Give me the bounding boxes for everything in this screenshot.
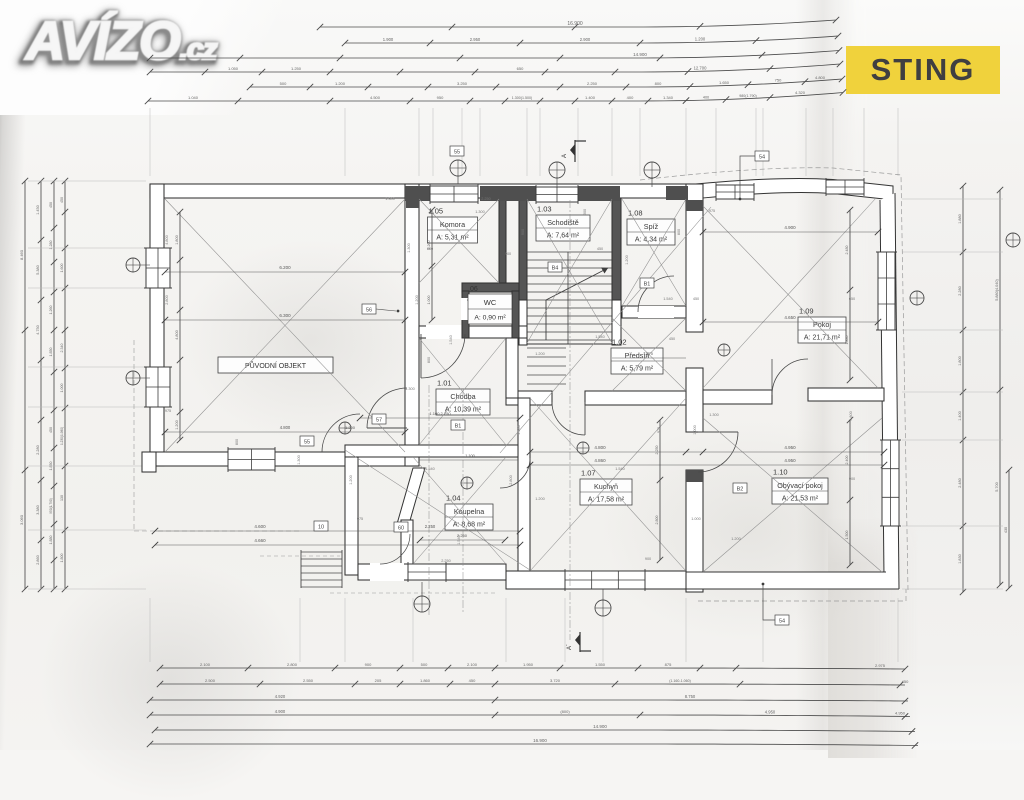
svg-text:1.540: 1.540 [663, 297, 673, 301]
chodba right wall [506, 338, 518, 398]
svg-text:4.950: 4.950 [895, 711, 906, 716]
svg-text:980(1.790): 980(1.790) [739, 94, 756, 98]
dash-dot centerline chodba [428, 385, 430, 615]
svg-text:(800): (800) [560, 709, 570, 714]
stair left partition (dark) [519, 198, 527, 300]
bottom dimension line 6 [150, 744, 918, 746]
svg-text:2.280: 2.280 [36, 445, 40, 455]
svg-text:1.10: 1.10 [773, 468, 788, 477]
svg-text:1.880: 1.880 [958, 214, 962, 224]
svg-text:1.200: 1.200 [731, 537, 741, 541]
svg-text:1.540: 1.540 [517, 425, 521, 435]
outer wall top (left part) [150, 184, 690, 198]
diagonal cross living [703, 418, 882, 572]
svg-text:60: 60 [398, 526, 404, 532]
tiny box B1 spiz [640, 278, 654, 288]
chain kitchen-living 2 [530, 464, 884, 466]
koupelna chamfer wall [397, 468, 425, 524]
svg-text:1.04: 1.04 [446, 494, 461, 503]
svg-text:3.060: 3.060 [19, 514, 24, 525]
svg-text:4.950: 4.950 [784, 458, 796, 463]
svg-text:54: 54 [759, 155, 765, 161]
staircase treads and arrow [527, 251, 612, 253]
svg-text:450: 450 [693, 297, 699, 301]
diagonal original room [165, 199, 405, 452]
svg-text:2.900: 2.900 [580, 37, 591, 42]
svg-text:4.800: 4.800 [175, 330, 179, 340]
spiz bottom wall [622, 306, 686, 318]
tiny box 57 original [372, 414, 386, 424]
svg-text:1.880: 1.880 [49, 536, 53, 545]
svg-text:PŮVODNÍ OBJEKT: PŮVODNÍ OBJEKT [245, 361, 307, 370]
top wall dark fill 1 [405, 186, 430, 201]
svg-text:8.460: 8.460 [19, 249, 24, 260]
door komora/chodba [421, 334, 465, 378]
svg-text:1.900: 1.900 [383, 37, 394, 42]
left dimension line 3 [53, 181, 55, 589]
chain across lower-left 2 [155, 544, 520, 546]
AVIZO.cz watermark logo [26, 10, 326, 80]
chain kitchen-living 1 [530, 451, 884, 453]
top wall dark fill 3 [578, 186, 620, 201]
stair right partition (dark) [612, 198, 621, 300]
left dimension line 1 [24, 181, 26, 589]
door koupelna [500, 458, 530, 488]
porch left wall [345, 457, 358, 575]
window above staircase [536, 187, 578, 202]
svg-text:2.975: 2.975 [875, 663, 886, 668]
top dimension line 2 [345, 36, 838, 43]
bottom dimension line 2 [160, 684, 905, 685]
section mark A-A bottom [579, 632, 581, 652]
top wall dark fill 2 [480, 186, 536, 201]
door wc [467, 300, 489, 322]
marker circle door2 [461, 477, 473, 489]
svg-text:1.050: 1.050 [228, 66, 239, 71]
door spiz [638, 276, 674, 312]
left dimension line 2 [40, 181, 42, 589]
svg-text:16.900: 16.900 [533, 738, 547, 743]
svg-text:900: 900 [505, 252, 511, 256]
svg-text:A: 0,90 m²: A: 0,90 m² [474, 315, 506, 322]
pokoj / living divider wall [703, 390, 772, 404]
svg-text:A´: A´ [567, 644, 573, 650]
svg-text:B1: B1 [644, 282, 651, 288]
svg-text:450: 450 [669, 337, 675, 341]
svg-text:6.300: 6.300 [279, 313, 291, 318]
svg-text:4.800: 4.800 [594, 445, 606, 450]
svg-text:2.800: 2.800 [655, 516, 659, 525]
svg-text:B1: B1 [455, 424, 462, 430]
marker circle pokoj [718, 344, 730, 356]
dashed line below porch [260, 555, 340, 557]
svg-text:500: 500 [421, 662, 428, 667]
svg-text:1.450: 1.450 [36, 205, 40, 215]
page fold shadow band [796, 0, 856, 750]
svg-text:1.400: 1.400 [585, 95, 596, 100]
svg-text:2.340: 2.340 [60, 344, 64, 353]
bottom dimension line 5 [155, 730, 915, 732]
svg-text:400: 400 [627, 95, 634, 100]
door predsin to pokoj [772, 359, 808, 395]
komora right partition (dark) [499, 198, 506, 283]
svg-text:2.800: 2.800 [287, 662, 298, 667]
svg-text:430: 430 [1004, 527, 1008, 533]
chain original room bottom [165, 431, 405, 433]
svg-text:10: 10 [318, 525, 324, 531]
svg-text:2.100: 2.100 [467, 662, 478, 667]
svg-text:4.800: 4.800 [849, 411, 853, 421]
svg-text:4.900: 4.900 [784, 225, 796, 230]
chain pokoj vertical [849, 210, 851, 380]
tiny box 55 original [300, 436, 314, 446]
svg-text:4.800: 4.800 [280, 425, 291, 430]
room label PUVODNI OBJEKT [218, 357, 333, 373]
diagonal cross predsin [612, 318, 686, 391]
kitchen top wall (right segment) [585, 391, 686, 405]
right dimension line 1 [962, 186, 964, 592]
window W1 left wall [146, 248, 170, 288]
diagonal cross chodba [419, 338, 506, 445]
svg-text:1.000: 1.000 [60, 384, 64, 393]
svg-text:A: 8,68 m²: A: 8,68 m² [453, 522, 486, 529]
long diagonal predsin-pokoj [500, 207, 711, 453]
svg-text:500: 500 [280, 81, 287, 86]
kitchen left wall [518, 398, 530, 571]
exterior stairs bottom-left [301, 551, 342, 553]
svg-text:2.500: 2.500 [205, 678, 216, 683]
top dimension line 4 [150, 64, 840, 72]
svg-text:975: 975 [657, 427, 661, 433]
window W2 left wall [146, 367, 170, 407]
svg-text:900: 900 [849, 477, 855, 481]
window original-room bottom [228, 449, 275, 470]
window right wall lower [882, 440, 899, 526]
right marker circle 2 [1006, 233, 1020, 247]
bathroom/porch bottom wall [358, 564, 506, 580]
right outer wall (tilted) [880, 193, 899, 589]
marker circle D01 bottom-left [414, 596, 430, 612]
wc enclosure [462, 283, 519, 292]
window above pokoj-right [826, 180, 864, 194]
svg-text:130: 130 [60, 495, 64, 501]
STING realty logo [846, 46, 1000, 94]
svg-text:5.380: 5.380 [36, 265, 40, 275]
svg-text:3.720: 3.720 [550, 678, 561, 683]
svg-text:2.800: 2.800 [509, 475, 513, 485]
dashed roof outline top-right [640, 168, 908, 590]
svg-text:B2: B2 [737, 487, 744, 493]
chain koupelna [420, 539, 505, 541]
diagonal cross spiz [622, 199, 686, 306]
marker circle kitchen [577, 442, 589, 454]
diagonal cross kitchen [530, 398, 686, 571]
svg-text:4.660: 4.660 [254, 538, 266, 543]
svg-text:900: 900 [521, 229, 525, 235]
svg-text:1.02: 1.02 [612, 338, 627, 347]
svg-text:14.900: 14.900 [633, 52, 647, 57]
svg-text:1.01: 1.01 [437, 379, 452, 388]
top extension lines [149, 108, 151, 176]
outer wall top-right (curved) [690, 178, 893, 200]
svg-text:1.540: 1.540 [595, 335, 605, 339]
svg-text:800: 800 [677, 229, 681, 235]
window right wall upper [878, 252, 895, 330]
svg-text:1.200: 1.200 [175, 420, 179, 430]
tiny box 60 [394, 522, 408, 532]
door porch [380, 534, 410, 564]
svg-text:1.200: 1.200 [535, 497, 545, 501]
marker box 54 bottom-right [775, 615, 789, 625]
outer wall left [150, 184, 164, 466]
tiny box 10 porch [314, 521, 328, 531]
svg-text:1.800: 1.800 [958, 356, 962, 366]
svg-text:4.920: 4.920 [275, 694, 286, 699]
chain original room 1 [165, 271, 405, 273]
svg-text:Komora: Komora [440, 220, 465, 229]
window bathroom bottom [408, 564, 446, 580]
bottom dimension line 4 [150, 715, 910, 717]
svg-text:2.250: 2.250 [587, 81, 598, 86]
svg-text:4.650: 4.650 [784, 315, 796, 320]
marker circle left lower [126, 371, 140, 385]
svg-text:A: 21,71 m²: A: 21,71 m² [804, 335, 841, 342]
kitchen top wall (left segment) [506, 391, 552, 405]
svg-text:1.200: 1.200 [695, 37, 706, 42]
svg-text:1.540: 1.540 [425, 467, 435, 471]
chain chodba2 [419, 459, 518, 461]
svg-text:1.300: 1.300 [405, 387, 415, 391]
svg-text:5.880(4.040): 5.880(4.040) [995, 279, 999, 301]
svg-text:2.480: 2.480 [845, 246, 849, 255]
svg-text:1.000: 1.000 [693, 425, 697, 435]
svg-text:1.100: 1.100 [465, 454, 475, 458]
diagonal cross schodiste [527, 199, 612, 343]
svg-text:A: 7,64 m²: A: 7,64 m² [547, 233, 580, 240]
svg-text:1.600: 1.600 [60, 264, 64, 273]
chain pokoj 1 [703, 231, 878, 233]
svg-text:1.07: 1.07 [581, 469, 596, 478]
dashed rect bottom-left [133, 340, 135, 531]
svg-text:1.950: 1.950 [523, 662, 534, 667]
svg-text:1.100 2.250: 1.100 2.250 [429, 411, 451, 416]
main internal wall vertical (upper) [686, 184, 703, 332]
svg-text:16.900: 16.900 [567, 21, 583, 27]
svg-text:1.300(1.500): 1.300(1.500) [512, 96, 532, 100]
jamb fill main wall mid [686, 470, 703, 482]
svg-text:56: 56 [366, 308, 372, 314]
top dimension line 5 [250, 79, 842, 87]
svg-text:975: 975 [709, 209, 715, 213]
svg-text:450: 450 [60, 197, 64, 203]
chain original room vertical [179, 212, 181, 440]
wall below komora [419, 326, 527, 338]
svg-text:1.300: 1.300 [475, 210, 485, 214]
tiny box B4 [548, 262, 562, 272]
dashed outline bottom [698, 600, 906, 602]
svg-text:1.540: 1.540 [615, 467, 625, 471]
svg-text:950(1.790): 950(1.790) [49, 498, 53, 513]
svg-text:1.540: 1.540 [449, 335, 453, 345]
svg-text:(1.160-1.060): (1.160-1.060) [669, 679, 691, 683]
svg-text:1.860: 1.860 [420, 678, 431, 683]
window above pokoj-left [716, 185, 754, 199]
right extension lines [902, 198, 1003, 200]
window above komora [430, 186, 478, 202]
svg-text:750: 750 [775, 77, 782, 82]
dash-dot centerline stair [569, 200, 571, 640]
svg-text:650: 650 [849, 297, 855, 301]
chain komora vertical [431, 210, 433, 320]
svg-text:2.250: 2.250 [441, 559, 451, 563]
tiny box B1 chodba [451, 420, 465, 430]
chain predsin [612, 357, 686, 359]
svg-text:1.260: 1.260 [49, 306, 53, 315]
svg-text:400: 400 [703, 95, 709, 99]
svg-text:900: 900 [645, 557, 651, 561]
kitchen bottom wall [506, 571, 686, 589]
door kitchen [552, 402, 585, 435]
marker circle X04 top [644, 162, 660, 178]
svg-text:1.400: 1.400 [958, 411, 962, 421]
right-of-fold lighter page area [834, 0, 1024, 750]
svg-text:800: 800 [427, 247, 433, 251]
marker circle D01 bottom-right [595, 600, 611, 616]
svg-text:4.900: 4.900 [275, 709, 286, 714]
svg-text:3.250: 3.250 [457, 81, 468, 86]
svg-text:1.000: 1.000 [691, 517, 701, 521]
svg-text:2.860: 2.860 [36, 555, 40, 565]
svg-text:2.480: 2.480 [958, 478, 962, 488]
svg-text:54: 54 [779, 619, 785, 625]
svg-text:1.550: 1.550 [595, 662, 606, 667]
svg-text:900: 900 [365, 662, 372, 667]
marker box 54 top-right [755, 151, 769, 161]
right marker circle 1 [910, 291, 924, 305]
svg-text:4.320: 4.320 [795, 90, 806, 95]
svg-text:450: 450 [49, 202, 53, 208]
svg-text:450: 450 [902, 679, 909, 684]
svg-text:1.340: 1.340 [663, 95, 674, 100]
svg-text:Spíž: Spíž [644, 222, 659, 231]
svg-text:1.250: 1.250 [291, 66, 302, 71]
section mark A-A top [574, 140, 576, 162]
svg-text:1.970: 1.970 [643, 351, 654, 356]
left dimension line 4 [64, 181, 66, 589]
svg-text:4.600: 4.600 [254, 524, 266, 529]
svg-text:4.750: 4.750 [36, 325, 40, 335]
svg-text:4.950: 4.950 [784, 445, 796, 450]
svg-text:450: 450 [49, 427, 53, 433]
door original room lower [322, 414, 360, 452]
svg-text:2.400: 2.400 [845, 456, 849, 465]
svg-text:4.800: 4.800 [815, 75, 826, 80]
svg-text:1.200: 1.200 [625, 255, 629, 265]
svg-text:975: 975 [165, 409, 171, 413]
svg-text:1.830: 1.830 [958, 554, 962, 564]
svg-text:900: 900 [583, 209, 587, 215]
svg-text:4.950: 4.950 [765, 710, 776, 715]
chain living vertical [849, 420, 851, 565]
marker circle living [527, 179, 529, 181]
svg-text:5.700: 5.700 [995, 482, 999, 492]
outer wall bottom of original room [150, 452, 419, 466]
window kitchen bottom [565, 571, 645, 589]
svg-text:3.380: 3.380 [36, 505, 40, 515]
svg-text:1.230(1.980): 1.230(1.980) [60, 427, 64, 445]
svg-text:A: 17,58 m²: A: 17,58 m² [588, 497, 625, 504]
chain chodba [360, 417, 520, 419]
svg-text:4.500: 4.500 [370, 95, 381, 100]
diagonal cross komora [419, 199, 499, 283]
svg-text:6.200: 6.200 [279, 265, 291, 270]
marker circle left upper [126, 258, 140, 272]
right dimension line 3 [1008, 470, 1010, 588]
svg-text:WC: WC [484, 298, 497, 307]
svg-text:1.300: 1.300 [297, 455, 301, 465]
top dimension line 6 [148, 93, 843, 102]
svg-text:06: 06 [470, 286, 478, 293]
svg-text:1.300: 1.300 [407, 243, 411, 253]
svg-text:975: 975 [357, 517, 363, 521]
top dimension line 3 [150, 51, 839, 59]
svg-text:2.250: 2.250 [481, 197, 491, 201]
svg-text:8.750: 8.750 [685, 694, 696, 699]
svg-text:1.200: 1.200 [335, 81, 346, 86]
svg-text:1.040: 1.040 [188, 95, 199, 100]
bottom dimension line 3 [150, 700, 908, 701]
svg-text:800: 800 [235, 439, 239, 445]
svg-text:1.200: 1.200 [535, 352, 545, 356]
svg-text:B4: B4 [552, 266, 559, 272]
svg-text:Schodiště: Schodiště [547, 218, 579, 227]
svg-text:1.300: 1.300 [709, 413, 719, 417]
svg-text:Pokoj: Pokoj [813, 320, 831, 329]
room label 1.06 WC [468, 294, 512, 324]
svg-text:2.800: 2.800 [165, 295, 169, 305]
svg-text:1.830: 1.830 [845, 336, 849, 345]
inner load wall between original room and hall [405, 184, 419, 466]
svg-text:1.200: 1.200 [415, 295, 419, 305]
svg-text:1.03: 1.03 [537, 205, 552, 214]
scan smudges [180, 240, 440, 440]
svg-text:1.200: 1.200 [349, 475, 353, 485]
svg-text:1.800: 1.800 [175, 235, 179, 245]
svg-text:1.650: 1.650 [719, 80, 730, 85]
marker circle X05 top [549, 162, 565, 178]
svg-text:57: 57 [376, 418, 382, 424]
left extension lines [28, 180, 146, 182]
svg-text:14.900: 14.900 [593, 724, 607, 729]
main internal wall vertical (mid) [686, 368, 703, 432]
top dimension line 1 [320, 20, 836, 27]
svg-text:4.860: 4.860 [594, 458, 606, 463]
bottom-right fold shadow wedge [828, 518, 918, 758]
svg-text:1.540: 1.540 [457, 535, 461, 545]
chain across lower-left 1 [155, 530, 520, 532]
svg-text:2.100: 2.100 [200, 662, 211, 667]
svg-text:1.850: 1.850 [49, 348, 53, 357]
svg-text:55: 55 [304, 440, 310, 446]
chain kitchen vertical [659, 420, 661, 560]
left wall lower stub [142, 452, 156, 472]
marker circle door1 [339, 422, 351, 434]
jamb fill bigroom wall top [406, 199, 419, 208]
long diagonal chodba-kitchen [345, 450, 530, 570]
bottom dimension line 1 [160, 668, 905, 669]
tiny box 56 original [362, 304, 376, 314]
top wall dark fill 4 [666, 186, 688, 200]
